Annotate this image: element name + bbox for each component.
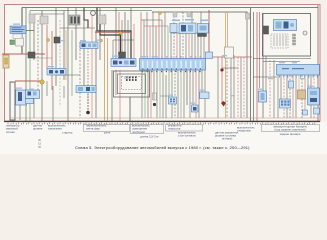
wire [144, 25, 168, 27]
wire [67, 8, 69, 122]
wire [167, 26, 169, 59]
wire thick step 3 [84, 8, 88, 29]
fusible link [3, 55, 9, 68]
pin number digits [10, 123, 13, 125]
wire [41, 11, 43, 122]
wire [179, 33, 181, 59]
pin top b [187, 12, 191, 17]
distributor stripes [71, 17, 73, 24]
wire [141, 70, 143, 118]
wire [182, 12, 184, 59]
yellow junction [40, 80, 44, 84]
open connector boxes [225, 47, 234, 58]
small blue box [303, 110, 308, 115]
wire [99, 8, 101, 61]
legend label [6, 124, 20, 134]
wire [192, 70, 194, 105]
svg-text:приборов: приборов [132, 130, 145, 134]
svg-text:задние фонари: задние фонари [280, 132, 301, 136]
bus wire mid top [152, 11, 248, 13]
schematic paper area [5, 5, 320, 121]
grey pin top [246, 13, 250, 19]
steering column frame [10, 82, 15, 120]
wire [150, 70, 152, 118]
wire [256, 12, 258, 121]
stalk ground lead [87, 94, 89, 111]
wire [183, 70, 185, 118]
wire [162, 70, 164, 118]
wire [37, 20, 39, 96]
wire [33, 14, 35, 60]
svg-text:Схема 5. Электрооборудование а: Схема 5. Электрооборудование автомобилей… [75, 145, 250, 150]
small blue box2 [206, 52, 213, 59]
svg-text:(в баке): (в баке) [222, 137, 232, 141]
wire [217, 57, 219, 118]
wiper motor internals [200, 26, 207, 31]
wire [55, 75, 57, 86]
heater lamp [303, 31, 307, 35]
door wiring loop middle [118, 74, 146, 94]
rear harness connector bar [277, 65, 320, 76]
legend top thin rule [10, 117, 318, 119]
wire [127, 20, 129, 59]
wire [280, 75, 282, 99]
wire [60, 27, 95, 29]
sensor block [99, 15, 106, 24]
wire [283, 75, 285, 118]
wire [201, 70, 203, 92]
legend sub 3a [178, 131, 196, 138]
wire [141, 19, 162, 21]
wire [83, 8, 85, 87]
heater pins [273, 35, 275, 46]
wire [63, 11, 65, 81]
wire [259, 12, 261, 88]
heater connector chain [293, 34, 296, 36]
tan wire mid [65, 30, 67, 80]
legend label [33, 124, 43, 131]
legend label [48, 124, 66, 131]
bottom white band [0, 122, 327, 154]
left number stack [38, 138, 42, 149]
rear harness text [292, 68, 304, 69]
wire [91, 12, 93, 118]
license lamp block [289, 81, 294, 88]
heater resistor [264, 26, 269, 34]
svg-text:длина 2,5-3 м: длина 2,5-3 м [140, 135, 158, 139]
legend label [237, 126, 255, 133]
regulator feed wire [26, 30, 34, 32]
wire [155, 26, 157, 59]
wire [104, 14, 106, 121]
fuel sender inner [261, 93, 265, 100]
legend box 2 [131, 125, 164, 134]
wire [203, 33, 205, 59]
legend sub right stack [215, 131, 238, 141]
tail lamp block [308, 88, 320, 105]
legend box 2 text [132, 124, 150, 134]
distributor body [69, 15, 80, 25]
mid grey mark [153, 93, 157, 100]
ground icon [10, 40, 15, 45]
wire [253, 76, 277, 78]
wire [185, 33, 187, 59]
wire [140, 12, 142, 59]
fuse box pins [142, 68, 143, 70]
svg-text:уровня: уровня [33, 127, 43, 131]
svg-text:зажигания: зажигания [48, 127, 62, 131]
pin top a [173, 12, 177, 17]
wire [301, 75, 303, 118]
wire [158, 12, 160, 59]
wire [75, 8, 77, 61]
wire [180, 70, 182, 118]
wire [153, 70, 155, 100]
door wiring loop inner [122, 77, 142, 90]
wire [59, 20, 61, 105]
wire [55, 8, 57, 70]
switch connector group [111, 59, 136, 67]
wire [189, 70, 191, 118]
heater switch dashed box [271, 34, 288, 48]
wire [34, 13, 64, 15]
wire [295, 75, 297, 118]
wire thick step 1 [97, 8, 131, 60]
relay block upper [54, 37, 60, 43]
wire [186, 70, 188, 105]
wire [159, 70, 161, 118]
wire [207, 56, 252, 58]
wire [107, 38, 109, 121]
wire [171, 70, 173, 118]
wire [188, 33, 190, 59]
tan connector box [298, 90, 306, 99]
wiper motor base [198, 34, 207, 37]
rear lamp grid [281, 101, 283, 103]
wire [176, 33, 178, 59]
wire [230, 57, 232, 118]
wire [253, 58, 311, 60]
wire [227, 12, 229, 48]
washer pump internals [181, 25, 186, 32]
relay block mid [119, 52, 126, 58]
regulator label [12, 26, 22, 29]
wire [156, 70, 158, 118]
green bus wire [30, 10, 152, 12]
svg-text:реле: реле [104, 131, 111, 135]
starter relay block [80, 42, 98, 49]
wire [269, 60, 271, 118]
regulator sub box [13, 34, 22, 39]
wire [133, 24, 135, 59]
fuse box bar [140, 59, 206, 71]
wire [233, 55, 235, 118]
stop switch block [192, 105, 199, 112]
heater blower block [274, 20, 297, 31]
wire [15, 80, 40, 82]
wire [171, 32, 204, 34]
connector pin [29, 14, 35, 23]
junction box [16, 38, 24, 46]
headlamp connector [47, 69, 66, 76]
red junction blob [221, 101, 226, 107]
wire [118, 12, 120, 59]
wire [164, 12, 166, 59]
wire [198, 70, 200, 118]
voltage regulator block [10, 26, 26, 34]
fusible link element [5, 58, 7, 64]
wire [204, 70, 206, 118]
wire [168, 70, 170, 97]
wire [165, 75, 167, 118]
junction dot yellow 1 [119, 31, 122, 34]
red dot [220, 68, 223, 71]
stalk ground blob [86, 111, 90, 115]
wire [111, 70, 113, 121]
wire [29, 11, 31, 53]
wire [174, 70, 176, 118]
fuse numbers row [142, 56, 143, 57]
svg-text:стоп-сигнала: стоп-сигнала [178, 134, 196, 138]
wire thick step 2 [100, 24, 121, 59]
corner blue box [314, 108, 320, 114]
wire [25, 8, 27, 122]
red feed wire [95, 32, 130, 34]
border frame [5, 5, 321, 122]
wire [277, 75, 279, 118]
wiper relay connectors [170, 24, 177, 33]
wire [221, 72, 223, 103]
wire [112, 40, 114, 59]
wire [52, 86, 54, 121]
legend box 3 text [168, 124, 182, 131]
wire [87, 48, 89, 110]
ignition switch block [16, 90, 27, 105]
wire [63, 86, 65, 98]
switch connector internals [113, 61, 118, 65]
svg-text:света фар: света фар [86, 127, 100, 131]
legend label [62, 131, 73, 135]
wire [46, 25, 48, 69]
legend label [104, 131, 111, 135]
wire [310, 75, 312, 118]
wire [161, 20, 163, 59]
wire [208, 10, 210, 52]
wire [246, 12, 248, 118]
washer pump block [179, 23, 196, 34]
wire [21, 33, 23, 54]
wire [149, 26, 151, 59]
wire [250, 8, 252, 122]
wire [113, 39, 134, 41]
column stalk block [76, 86, 96, 93]
wire [95, 30, 131, 32]
wire [160, 95, 169, 97]
wire [33, 90, 35, 118]
wire [79, 42, 81, 118]
wire [263, 61, 300, 63]
ignition coil [40, 16, 48, 24]
light switch block [26, 90, 40, 99]
door wiring loop outer [114, 71, 150, 97]
headlamp connector internals [49, 70, 53, 74]
wire [195, 70, 197, 118]
wire [124, 12, 126, 59]
fuel gauge sender block [259, 91, 267, 102]
fuse box fuses [142, 61, 144, 69]
wire [51, 31, 53, 90]
wire [253, 12, 255, 121]
pin number ticks [7, 123, 9, 125]
wire [265, 56, 267, 91]
wire [200, 12, 202, 59]
wire [121, 20, 123, 59]
rear harness pins [278, 75, 281, 78]
wire [95, 31, 97, 118]
wire [237, 57, 239, 118]
door pin group [126, 77, 128, 79]
wire [222, 67, 238, 69]
wire [119, 70, 121, 121]
wire [298, 75, 300, 90]
wire [170, 33, 172, 59]
svg-text:плафонов: плафонов [237, 129, 251, 133]
junction dot yellow 2 [47, 39, 50, 42]
wire [19, 105, 21, 120]
legend box 1 text [86, 124, 107, 131]
legend box 4 [262, 125, 320, 132]
wire [115, 70, 117, 95]
heater blower internals [276, 22, 282, 29]
wire [56, 74, 80, 76]
wire [146, 12, 148, 59]
starter relay internals [82, 44, 86, 48]
wire [197, 33, 199, 59]
wire [289, 75, 291, 118]
svg-text:30: 30 [38, 145, 42, 149]
wire [286, 75, 288, 118]
lamp symbol [91, 11, 96, 16]
light switch lower tier [26, 99, 34, 104]
label text [172, 20, 180, 22]
wire [30, 57, 52, 59]
wire [29, 58, 31, 121]
wire [221, 57, 223, 68]
wire [240, 57, 242, 118]
wire [130, 8, 132, 60]
wire [115, 8, 117, 60]
tail lamp internals [310, 91, 317, 95]
wire [71, 30, 73, 96]
wire [262, 13, 264, 118]
wire [191, 12, 193, 59]
wiper motor block [198, 24, 209, 34]
wire [194, 33, 196, 59]
door switch pair [200, 92, 210, 99]
wire [46, 81, 48, 96]
bus wire 30 top [22, 7, 318, 9]
wire [225, 12, 227, 118]
courtesy grid [170, 99, 172, 101]
wire [243, 57, 245, 118]
light switch internals [28, 92, 32, 96]
wire [292, 75, 294, 118]
svg-text:сигнал: сигнал [6, 130, 15, 134]
door loop wire [129, 97, 131, 121]
schematic bottom rule [4, 121, 320, 123]
wire [144, 70, 146, 118]
wire [143, 20, 145, 59]
fuse box under-pins [142, 71, 143, 72]
wire [147, 70, 149, 118]
wire [21, 8, 23, 28]
wire [226, 57, 228, 118]
wire [173, 12, 175, 59]
ignition switch internals [18, 92, 22, 101]
wire [177, 70, 179, 118]
stop switch inner [193, 107, 197, 111]
wire [273, 60, 275, 118]
wire [152, 12, 154, 59]
wire [304, 75, 306, 110]
column stalk internals [78, 87, 83, 91]
wire [313, 75, 315, 118]
wire [307, 75, 309, 88]
junction dot yellow 3 [159, 12, 162, 15]
wire [2, 53, 45, 55]
designator marks [13, 24, 313, 104]
relay block [28, 52, 35, 58]
junction dot yellow 4 [100, 39, 103, 42]
small dark dot [153, 103, 156, 106]
rear lamp cluster block [280, 99, 291, 108]
heater assembly box [263, 14, 311, 57]
svg-text:стартер: стартер [62, 131, 73, 135]
legend box 3 [166, 125, 203, 132]
right inner frame line [317, 5, 319, 121]
legend box 1 [84, 125, 130, 132]
courtesy switch block [169, 97, 177, 104]
